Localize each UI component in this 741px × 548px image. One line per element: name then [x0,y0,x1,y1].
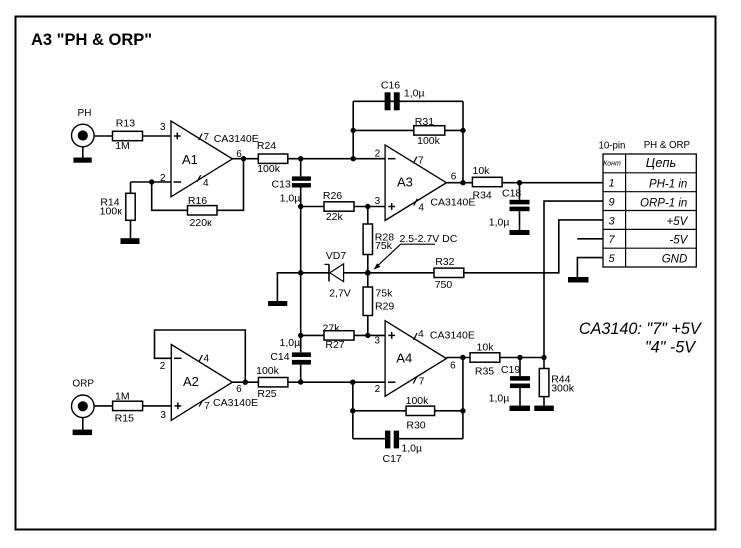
wire A2 out [232,381,258,383]
wire A3 loop top [353,100,463,102]
svg-text:A2: A2 [183,374,199,389]
svg-text:CA3140E: CA3140E [430,196,475,208]
connector PH [72,108,95,147]
svg-text:100k: 100k [256,365,280,377]
wire A1 out [232,158,258,160]
svg-text:3: 3 [160,122,166,133]
resistor R28 75k [363,224,394,255]
svg-text:5: 5 [608,253,615,265]
node R29/R27 [365,333,370,338]
wire C19 bottom [519,388,521,406]
svg-text:3: 3 [374,336,380,347]
node R31 left [351,128,356,133]
svg-text:ORP: ORP [72,379,94,390]
node R30 right [460,408,465,413]
resistor R44 300k [539,369,574,397]
wire C13 bottom [300,187,302,272]
svg-text:75k: 75k [375,240,393,252]
svg-text:7: 7 [204,401,210,412]
wire A3 loop right vertical [462,101,464,182]
svg-text:100k: 100k [406,395,430,407]
svg-text:2: 2 [375,148,381,159]
wire C18 top [519,183,521,200]
node VD7/R28/R29/R32 [365,270,371,276]
wire A4 out [446,357,470,359]
connector ORP [72,379,95,418]
svg-text:7: 7 [204,132,210,143]
wire R27 to A4 pin3 [354,334,385,336]
wire ORP to R15 [94,405,113,407]
wire R44 top [543,358,545,369]
svg-text:1,0µ: 1,0µ [401,442,422,454]
wire R30 right seg [435,410,463,412]
svg-text:1,0µ: 1,0µ [404,87,425,99]
pin table 10-pin PH & ORP [599,140,697,267]
wire VD7 right [344,272,434,274]
svg-text:6: 6 [451,171,457,182]
resistor R14 100k [100,193,136,220]
svg-text:100к: 100к [100,205,123,217]
resistor R27 27k [323,323,354,352]
svg-text:PH: PH [78,108,92,119]
node C13/R26 [298,204,303,209]
wire R16 to A1 out [217,159,244,211]
svg-text:R34: R34 [473,189,492,201]
svg-text:2,7V: 2,7V [329,287,351,299]
capacitor C19 1,0u [489,364,530,405]
svg-text:CA3140E: CA3140E [213,397,258,409]
svg-text:CA3140E: CA3140E [430,330,475,342]
resistor R34 10k [472,165,502,201]
node A1 output [241,156,246,161]
wire R30 left seg [353,410,406,412]
svg-text:CA3140: "7" +5V: CA3140: "7" +5V [579,320,703,338]
resistor R26 22k [323,190,354,223]
svg-text:2: 2 [160,361,166,372]
wire R24 to A3 pin2 [288,158,385,160]
resistor R15 1M [113,390,143,424]
wire PH to R13 [94,135,113,137]
wire R30 loop right [462,358,464,439]
svg-text:R35: R35 [475,365,494,377]
svg-text:Цепь: Цепь [646,155,676,170]
node A3 output [460,180,465,185]
svg-text:ORP-1 in: ORP-1 in [640,197,687,209]
node A3 loop left [351,156,356,161]
op-amp A3 [375,145,476,221]
node R44 / ORP-1 [541,355,546,360]
capacitor C18 1,0u [489,187,530,228]
wire VD7 row left to ground [277,273,300,301]
wire R27 left [301,334,324,336]
resistor R13 1M [113,118,143,152]
svg-text:7: 7 [418,156,424,167]
node R24/C13 [298,156,303,161]
wire C18 bottom [519,211,521,230]
svg-text:R13: R13 [116,118,135,130]
ground under R14 [121,238,140,244]
wire R14 bottom [130,220,132,238]
svg-text:PH-1 in: PH-1 in [649,179,687,191]
ground bar under C18 [510,230,530,235]
svg-text:R26: R26 [323,190,342,202]
svg-text:1,0µ: 1,0µ [489,393,510,405]
wire A3 out to R34 [446,182,472,184]
zener diode VD7 2,7V [325,250,351,300]
node VD7 left [298,270,303,275]
svg-text:A4: A4 [396,351,412,366]
wire R25 to A4 pin2 [288,381,385,383]
resistor R32 750 [434,256,464,291]
wire feedback A1 down [152,182,188,210]
svg-text:750: 750 [435,279,453,291]
ground bar table GND [568,277,589,283]
svg-text:9: 9 [608,197,614,209]
wire R32 right to +5V [464,220,603,273]
svg-text:R16: R16 [188,195,207,207]
svg-text:3: 3 [608,215,615,227]
svg-text:C13: C13 [272,178,291,190]
op-amp A1 [160,121,259,197]
svg-text:6: 6 [236,384,242,395]
svg-text:"4" -5V: "4" -5V [645,339,697,357]
svg-text:10k: 10k [473,165,491,177]
svg-text:4: 4 [418,329,424,340]
svg-text:22k: 22k [326,211,344,223]
node R30 loop left top [350,380,355,385]
resistor R35 10k [470,342,500,378]
ground under PH [73,147,91,163]
svg-text:3: 3 [160,410,166,421]
wire C13 top [300,159,302,177]
resistor R16 220k [188,195,218,229]
wire GND to ground [577,258,603,277]
svg-text:PH & ORP: PH & ORP [644,140,690,151]
wire C14 bottom [300,365,302,383]
node A4 output [460,355,465,360]
annotation 2.5-2.7V DC with arrow [374,233,458,269]
svg-text:CA3140E: CA3140E [214,133,259,145]
svg-text:C17: C17 [383,453,402,465]
svg-text:1: 1 [608,178,614,190]
svg-text:2: 2 [375,384,381,395]
svg-text:A3: A3 [397,175,413,190]
wire R34 to table pin1 [502,182,603,184]
svg-text:6: 6 [450,360,456,371]
svg-text:1,0µ: 1,0µ [280,337,301,349]
wire C17 left seg [353,438,385,440]
svg-text:R30: R30 [406,420,425,432]
svg-text:2: 2 [160,173,166,184]
node C14/R25 [298,379,303,384]
node A1 inverting input [149,179,154,184]
svg-text:3: 3 [375,196,381,207]
wire R31 right [445,129,463,131]
wire VD7 left [301,272,329,274]
wire R29 top [367,273,369,287]
svg-text:C18: C18 [502,187,521,199]
resistor R29 75k [363,287,394,316]
svg-text:10-pin: 10-pin [599,140,626,151]
svg-text:100k: 100k [257,163,281,175]
svg-text:1,0µ: 1,0µ [280,193,301,205]
svg-text:Конт: Конт [603,161,621,168]
wire A3 loop left vertical [352,101,354,158]
wire R28 bottom [367,255,369,273]
svg-text:-5V: -5V [669,235,688,247]
wire R28 top [367,207,369,225]
capacitor C14 1,0u [270,337,311,364]
svg-text:10k: 10k [477,342,495,354]
svg-text:R25: R25 [257,388,276,400]
svg-text:1M: 1M [115,140,130,152]
node R26/R28 [365,204,370,209]
svg-text:75k: 75k [375,288,393,300]
node R30 left [350,408,355,413]
op-amp A4 [374,321,474,397]
wire ORP-1 vertical to table pin9 [544,201,603,357]
svg-text:27k: 27k [323,323,341,335]
svg-text:1,0µ: 1,0µ [489,217,510,229]
wire R26 to A3 pin3 [354,206,385,208]
svg-text:2.5-2.7V DC: 2.5-2.7V DC [400,233,458,245]
svg-text:A1: A1 [182,152,198,167]
svg-text:R29: R29 [375,300,394,312]
wire C19 top [519,358,521,377]
svg-text:100k: 100k [417,135,441,147]
wire A1 - input [131,181,172,183]
wire A2 feedback loop [155,330,246,382]
resistor R30 100k [406,395,435,432]
node R31 right [460,128,465,133]
wire R31 left [353,129,414,131]
capacitor C16 1,0u [381,79,425,110]
svg-text:GND: GND [662,253,688,265]
wire R13 to A1 + [143,135,172,137]
svg-text:C19: C19 [501,364,520,376]
svg-text:R31: R31 [415,116,434,128]
wire R15 to A2 pin3 [143,405,172,407]
wire R14 top [130,182,132,193]
wire R35 right [500,357,544,359]
wire main vertical C14 top [300,273,302,353]
svg-text:220к: 220к [190,217,213,229]
ground under VD7 row [268,301,287,306]
svg-text:R32: R32 [435,256,454,268]
svg-text:R27: R27 [325,339,344,351]
resistor R24 100k [257,140,288,175]
node C18 [517,180,522,185]
svg-text:1M: 1M [115,390,130,402]
capacitor C17 1,0u [383,431,423,465]
wire -5V stub [577,238,603,240]
svg-text:300k: 300k [551,383,575,395]
ground under ORP [73,418,93,436]
op-amp A2 [160,345,258,421]
svg-text:R15: R15 [115,412,134,424]
svg-text:C16: C16 [381,79,400,91]
svg-text:A3 "PH & ORP": A3 "PH & ORP" [31,31,152,49]
capacitor C13 1,0u [272,176,311,204]
note CA3140 supply [579,320,703,357]
node C19 [517,355,522,360]
wire R26 left [301,206,324,208]
svg-text:7: 7 [419,377,425,388]
svg-text:4: 4 [204,353,210,364]
wire C17 right seg [399,438,463,440]
svg-text:+5V: +5V [667,216,689,228]
ground bar under C19 [510,406,531,411]
svg-text:R24: R24 [257,140,276,152]
svg-text:7: 7 [608,234,615,246]
svg-text:4: 4 [418,202,424,213]
resistor R25 100k [256,365,288,400]
ground bar under R44 [534,406,554,411]
resistor R31 100k [414,116,445,147]
wire R29 bottom [367,316,369,336]
svg-text:C14: C14 [270,351,289,363]
node R27 left [298,333,303,338]
svg-text:4: 4 [203,178,209,189]
node A2 output [243,380,248,385]
svg-text:VD7: VD7 [326,250,347,262]
wire R30 loop left [352,382,354,439]
wire R44 bottom [543,397,545,406]
